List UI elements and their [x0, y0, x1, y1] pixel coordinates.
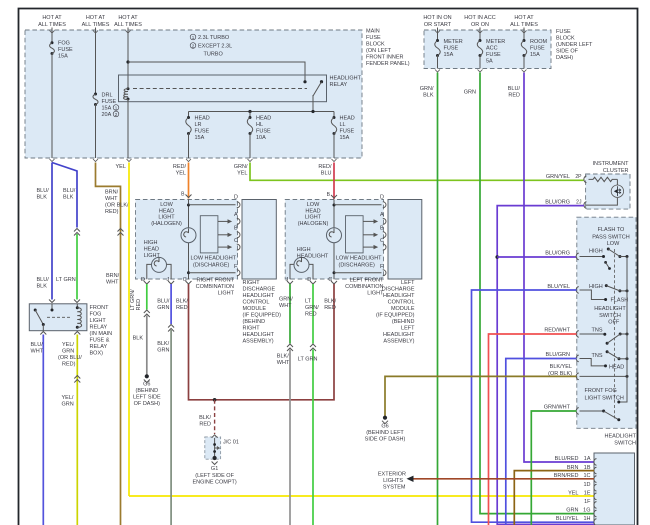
- svg-text:LT GRN: LT GRN: [56, 277, 76, 283]
- fog switch feed from bus: [617, 376, 627, 403]
- svg-text:BLK/: BLK/: [277, 354, 289, 360]
- svg-text:B: B: [380, 226, 384, 232]
- label BLU/GRN right: [157, 299, 170, 312]
- svg-text:BLK: BLK: [37, 284, 48, 290]
- cluster lamp wire down: [616, 179, 618, 185]
- node low beam top (left): [333, 204, 336, 207]
- switch pin TNS 2: [576, 355, 579, 362]
- svg-text:RELAY: RELAY: [90, 344, 108, 350]
- fuse HEAD LR label: [195, 116, 210, 142]
- switch pin HIGH 2: [576, 287, 579, 294]
- fuse ROOM 15A: [521, 39, 526, 57]
- svg-text:METER: METER: [444, 39, 463, 45]
- discharge unit rect (left): [346, 216, 364, 253]
- svg-text:BLK/YEL: BLK/YEL: [550, 364, 572, 370]
- svg-text:EXTERIOR: EXTERIOR: [378, 472, 406, 478]
- connector chevrons left pin D: [310, 344, 316, 351]
- svg-text:LOW: LOW: [160, 202, 173, 208]
- svg-text:LT: LT: [305, 299, 312, 305]
- svg-text:ACC: ACC: [486, 46, 498, 52]
- wire BLK/RED dashed drop to J/C 01: [214, 400, 216, 434]
- svg-text:(HALOGEN): (HALOGEN): [298, 221, 329, 227]
- fog relay coil pin chevron: [74, 300, 80, 303]
- svg-text:15A: 15A: [102, 106, 112, 112]
- front fog light relay label: [90, 305, 113, 357]
- instrument cluster (dashed box): [586, 174, 630, 209]
- wire BLK/GRN down: [170, 330, 172, 525]
- svg-text:GRN: GRN: [566, 508, 578, 514]
- svg-text:(IF EQUIPPED): (IF EQUIPPED): [376, 313, 415, 319]
- svg-text:CONTROL: CONTROL: [388, 300, 415, 306]
- label BLU/BLK upper pair: [37, 188, 76, 201]
- wire LT GRN/RED from left pin D: [312, 284, 314, 344]
- switch mechanical link (dashed): [614, 249, 616, 419]
- svg-text:D: D: [234, 195, 238, 201]
- svg-text:1G: 1G: [583, 508, 590, 514]
- right discharge headlight control module: [242, 200, 276, 280]
- dash fuse block (dashed box, top right): [424, 30, 551, 69]
- svg-text:BLU/: BLU/: [37, 188, 50, 194]
- headlight relay coil: [124, 80, 130, 101]
- ground G6 (behind dash, right light): [144, 374, 150, 382]
- fog relay switch: [34, 309, 45, 331]
- label flash to pass switch: [592, 227, 630, 247]
- svg-text:LIGHT SWITCH: LIGHT SWITCH: [585, 395, 624, 401]
- svg-text:HEADLIGHT: HEADLIGHT: [594, 306, 626, 312]
- fog relay mechanical link (dashed): [47, 316, 72, 318]
- svg-text:BLK/: BLK/: [324, 299, 336, 305]
- headlight switch stage 2 (high/flash): [580, 284, 629, 301]
- svg-text:FUSE: FUSE: [444, 46, 459, 52]
- bottom pin chevrons (right): [144, 281, 192, 284]
- fog relay coil: [76, 304, 82, 329]
- wire GRN/YEL from HL fuse: [250, 163, 584, 181]
- pin B left light: [327, 192, 337, 198]
- node bus-relay: [311, 110, 314, 113]
- wire BLU/GRN: [506, 359, 577, 525]
- wire YEL/GRN: [76, 335, 78, 525]
- svg-text:B: B: [234, 226, 238, 232]
- wire BLK to ground G6: [146, 316, 148, 376]
- label BLK/WHT: [277, 354, 290, 367]
- svg-text:RED/WHT: RED/WHT: [544, 328, 570, 334]
- fuse HEAD HL 10A: [247, 116, 252, 135]
- headlight relay label: [330, 76, 362, 89]
- svg-text:LOW HEADLIGHT: LOW HEADLIGHT: [336, 256, 382, 262]
- svg-text:HOT AT: HOT AT: [86, 15, 106, 21]
- bottom pin chevrons (left): [287, 281, 337, 284]
- label GRN/WHT left light: [279, 297, 293, 310]
- node bus-HL: [248, 110, 251, 113]
- fuse ROOM label: [530, 39, 548, 58]
- label BLK/RED drop: [199, 415, 211, 428]
- fog relay pin chevron left: [49, 300, 55, 303]
- svg-text:COMBINATION: COMBINATION: [345, 284, 383, 290]
- label low headlight discharge (right): [191, 256, 237, 269]
- label right discharge module: [243, 280, 282, 345]
- svg-text:BLOCK: BLOCK: [556, 36, 575, 42]
- svg-text:FUSE &: FUSE &: [90, 338, 110, 344]
- fuse FOG 15A: [50, 41, 55, 55]
- svg-text:RED/: RED/: [173, 164, 187, 170]
- svg-text:FUSE: FUSE: [340, 129, 355, 135]
- label GRN/BLK: [420, 86, 434, 99]
- label BLK/GRN: [157, 341, 169, 354]
- switch pin HIGH 1: [576, 253, 579, 260]
- node relay feed branch: [126, 60, 129, 63]
- label G6 right light: [133, 382, 161, 408]
- label right front combination light: [196, 278, 235, 297]
- wire RED/BLU to left combination light: [333, 163, 335, 200]
- wire GRN/BLK: [437, 73, 439, 525]
- svg-text:BLU/ORG: BLU/ORG: [545, 251, 570, 257]
- label exterior lights system: [378, 472, 406, 491]
- label headlight switch (below box): [605, 433, 637, 446]
- svg-text:BLU: BLU: [321, 171, 332, 177]
- svg-text:FRONT INNER: FRONT INNER: [366, 55, 404, 61]
- svg-text:HIGH: HIGH: [297, 247, 311, 253]
- svg-text:BLU/: BLU/: [508, 86, 521, 92]
- svg-text:BRN/: BRN/: [105, 190, 119, 196]
- svg-text:BRN/RED: BRN/RED: [554, 473, 579, 479]
- svg-text:BLU/RED: BLU/RED: [555, 456, 579, 462]
- high headlight bulb (left): [290, 257, 313, 279]
- wire BLK/RED right light pin C: [189, 284, 335, 400]
- connector chevrons right pin J: [168, 325, 174, 332]
- svg-text:HEAD: HEAD: [195, 116, 210, 122]
- wire BRN to connector 1B: [514, 471, 594, 525]
- wire feed headlight relay: [126, 28, 131, 89]
- low headlight halogen bulb (left): [327, 228, 342, 243]
- module pin brackets (left): [383, 202, 386, 276]
- svg-text:A: A: [380, 212, 384, 218]
- wire GRN/WHT: [531, 411, 576, 525]
- hot at all times label 2: [82, 15, 110, 28]
- label RED/BLU: [318, 164, 332, 177]
- connector chevrons right pin D: [144, 310, 150, 317]
- wire LL fuse exit: [332, 134, 337, 162]
- svg-text:FOG: FOG: [58, 41, 70, 47]
- svg-text:INSTRUMENT: INSTRUMENT: [592, 161, 629, 167]
- svg-text:(HALOGEN): (HALOGEN): [151, 221, 182, 227]
- junction connector J/C 01: [205, 435, 221, 459]
- svg-text:RED: RED: [508, 93, 520, 99]
- wire GRN to connector 1G: [480, 73, 594, 514]
- wire bus to LR fuse: [188, 112, 190, 117]
- svg-text:ASSEMBLY): ASSEMBLY): [243, 339, 274, 345]
- connector chevrons BRN/WHT: [118, 229, 124, 236]
- svg-text:2J: 2J: [576, 200, 582, 206]
- connector pin brackets: [594, 459, 597, 525]
- wire BRN/RED to connector 1C: [412, 478, 595, 480]
- fog relay switch feed stub: [51, 304, 54, 312]
- svg-text:FUSE: FUSE: [256, 129, 271, 135]
- svg-text:C: C: [380, 238, 384, 244]
- svg-text:LIGHT: LIGHT: [144, 253, 161, 259]
- svg-text:GRN/: GRN/: [234, 164, 248, 170]
- wire BLK/WHT down: [289, 350, 291, 525]
- svg-text:LIGHT: LIGHT: [90, 318, 107, 324]
- svg-text:BLK: BLK: [37, 195, 48, 201]
- svg-text:15A: 15A: [444, 52, 454, 58]
- svg-text:FOG: FOG: [90, 312, 102, 318]
- svg-text:BLU/YEL: BLU/YEL: [547, 284, 570, 290]
- svg-text:LR: LR: [195, 122, 202, 128]
- svg-text:MAIN: MAIN: [366, 29, 380, 35]
- wire meter acc fuse exit: [478, 56, 483, 73]
- headlight switch (dashed box): [577, 217, 636, 428]
- left discharge headlight control module: [388, 200, 422, 280]
- label 1H row: [556, 516, 591, 522]
- svg-text:OR START: OR START: [424, 22, 452, 28]
- pin B right light: [181, 192, 191, 198]
- svg-text:RIGHT FRONT: RIGHT FRONT: [197, 278, 235, 284]
- label 1C row: [554, 473, 591, 479]
- module pin letters (right): [234, 195, 238, 271]
- label LT GRN/RED vertical: [130, 289, 142, 311]
- svg-text:YEL/: YEL/: [62, 395, 74, 401]
- right front combination light (dashed box): [136, 200, 238, 280]
- label BLK/RED right: [176, 299, 188, 312]
- fuse METER ACC 5A: [477, 39, 482, 57]
- bottom pin letters (right): [141, 277, 187, 283]
- svg-text:EXCEPT 2.3L: EXCEPT 2.3L: [198, 44, 232, 50]
- svg-text:FLASH: FLASH: [611, 298, 629, 304]
- svg-text:LEFT: LEFT: [401, 280, 415, 286]
- connector chevrons left pin J: [287, 344, 293, 351]
- svg-text:HEADLIGHT: HEADLIGHT: [330, 76, 362, 82]
- switch pin TNS 1: [576, 331, 579, 338]
- bottom pin letters (left): [285, 277, 332, 283]
- wire relay coil to yellow exit: [127, 99, 132, 162]
- label BRN/WHT (OR BLK/RED): [105, 190, 129, 216]
- svg-text:BLU/ORG: BLU/ORG: [545, 200, 570, 206]
- svg-text:GRN/YEL: GRN/YEL: [546, 174, 570, 180]
- label left front combination light: [345, 278, 384, 297]
- svg-text:COMBINATION: COMBINATION: [196, 284, 234, 290]
- svg-text:(DISCHARGE): (DISCHARGE): [339, 262, 376, 268]
- svg-text:HEADLIGHT: HEADLIGHT: [243, 293, 275, 299]
- wire BLU/RED to connector 1A: [524, 73, 594, 463]
- wire RED/WHT: [489, 334, 577, 525]
- svg-text:SWITCH: SWITCH: [599, 313, 621, 319]
- headlight relay box: [119, 75, 327, 102]
- label left discharge module: [376, 280, 415, 345]
- hot in acc or on label: [464, 15, 495, 28]
- wire branch to relay contact: [128, 62, 305, 81]
- svg-text:RIGHT: RIGHT: [243, 280, 261, 286]
- label headlight switch / off: [594, 306, 626, 326]
- svg-text:FENDER PANEL): FENDER PANEL): [366, 61, 410, 67]
- svg-text:(ON LEFT: (ON LEFT: [366, 48, 392, 54]
- svg-text:WHT: WHT: [31, 349, 44, 355]
- switch pin GRN/WHT: [576, 408, 579, 415]
- svg-text:2P: 2P: [575, 174, 582, 180]
- svg-text:MODULE: MODULE: [391, 306, 415, 312]
- svg-text:RED: RED: [199, 422, 211, 428]
- svg-text:HIGH: HIGH: [144, 240, 158, 246]
- svg-text:BOX): BOX): [90, 351, 104, 357]
- svg-text:RED): RED): [62, 362, 76, 368]
- svg-text:FUSE: FUSE: [195, 129, 210, 135]
- svg-text:ALL TIMES: ALL TIMES: [38, 22, 66, 28]
- wire feed meter acc fuse: [478, 28, 483, 41]
- wire bus to HL fuse: [249, 112, 251, 117]
- svg-text:BLU/: BLU/: [37, 277, 50, 283]
- hot in on or start label: [423, 15, 451, 28]
- svg-text:TNS: TNS: [592, 353, 603, 359]
- svg-text:YEL: YEL: [176, 171, 186, 177]
- wire BLU/GRN from right pin J: [170, 284, 172, 324]
- wire BLK/YEL to ground G6: [385, 376, 577, 416]
- svg-text:GRN: GRN: [464, 90, 476, 96]
- svg-text:LOW: LOW: [307, 202, 320, 208]
- svg-text:LOW HEADLIGHT: LOW HEADLIGHT: [191, 256, 237, 262]
- svg-text:(BEHIND: (BEHIND: [243, 319, 266, 325]
- svg-text:(OR BLK/: (OR BLK/: [105, 203, 129, 209]
- svg-text:(OR BLU/: (OR BLU/: [58, 355, 82, 361]
- svg-text:(BEHIND LEFT: (BEHIND LEFT: [366, 430, 404, 436]
- headlight relay switch: [303, 80, 323, 111]
- svg-text:LEFT SIDE: LEFT SIDE: [133, 395, 161, 401]
- fuse DRL label: [102, 93, 119, 119]
- switch ground link: [580, 375, 629, 378]
- fuse METER label: [444, 39, 463, 58]
- label G6 switch: [365, 423, 406, 442]
- fuse METER 15A: [435, 39, 440, 57]
- svg-text:LIGHT: LIGHT: [158, 215, 175, 221]
- svg-text:HOT AT: HOT AT: [118, 15, 138, 21]
- svg-text:HEAD: HEAD: [609, 365, 624, 371]
- wire LT GRN down: [312, 350, 314, 525]
- label GRN/YEL: [234, 164, 248, 177]
- label BLU/BLK lower: [37, 277, 50, 290]
- svg-text:BRN/: BRN/: [106, 273, 120, 279]
- wire to module pin D (left): [334, 204, 382, 206]
- left front combination light (dashed box): [285, 200, 383, 280]
- svg-text:SWITCH: SWITCH: [614, 441, 636, 447]
- label G1: [192, 466, 236, 486]
- hot at all times label 1: [38, 15, 66, 28]
- svg-text:FRONT: FRONT: [90, 305, 110, 311]
- wire to module pin F (right): [189, 272, 236, 274]
- svg-text:RED): RED): [105, 209, 119, 215]
- svg-text:HEAD: HEAD: [305, 208, 320, 214]
- svg-text:ALL TIMES: ALL TIMES: [510, 22, 538, 28]
- front fog light relay box: [29, 304, 87, 331]
- svg-text:HOT AT: HOT AT: [514, 15, 534, 21]
- node BLU/ORG branch: [495, 255, 499, 259]
- wire YEL horizontal to connector 1E: [129, 495, 594, 497]
- module pin letters (left): [380, 195, 384, 271]
- main fuse block (dashed box): [25, 30, 362, 158]
- svg-text:BLU/GRN: BLU/GRN: [546, 352, 570, 358]
- wire LT GRN to fog relay coil: [76, 234, 78, 300]
- wire BLU/YEL: [472, 290, 595, 522]
- svg-text:GRN/: GRN/: [305, 305, 319, 311]
- cluster pin 2J: [576, 200, 586, 209]
- fuse HEAD LL 15A: [331, 116, 336, 135]
- svg-text:LIGHT: LIGHT: [305, 215, 322, 221]
- svg-text:HOT AT: HOT AT: [42, 15, 62, 21]
- svg-text:(DISCHARGE): (DISCHARGE): [193, 262, 230, 268]
- front fog light switch contact: [580, 410, 621, 422]
- wire BLU/BLK left branch: [51, 163, 53, 300]
- svg-text:1D: 1D: [583, 482, 590, 488]
- svg-text:HEADLIGHT: HEADLIGHT: [383, 332, 415, 338]
- svg-text:10A: 10A: [256, 135, 266, 141]
- svg-text:DISCHARGE: DISCHARGE: [382, 287, 415, 293]
- svg-text:OF DASH): OF DASH): [134, 401, 160, 407]
- svg-text:15A: 15A: [58, 54, 68, 60]
- label 1E row: [568, 490, 591, 496]
- svg-text:GRN: GRN: [62, 349, 74, 355]
- high head light bulb (right): [147, 257, 171, 279]
- wire to module pin F (left): [334, 272, 382, 274]
- svg-text:SIDE OF DASH): SIDE OF DASH): [365, 437, 406, 443]
- svg-text:FUSE: FUSE: [102, 99, 117, 105]
- cluster resistor: [589, 177, 618, 181]
- wire feed meter fuse: [435, 28, 440, 41]
- instrument cluster label: [592, 161, 629, 174]
- svg-text:A: A: [234, 212, 238, 218]
- exterior lights system arrow: [407, 476, 414, 482]
- low headlight halogen bulb (right): [181, 228, 196, 243]
- svg-text:LIGHT: LIGHT: [218, 291, 235, 297]
- svg-text:(OR BLK): (OR BLK): [548, 371, 572, 377]
- svg-text:(BEHIND: (BEHIND: [135, 388, 158, 394]
- fuse METER ACC label: [486, 39, 505, 65]
- svg-text:HL: HL: [256, 122, 263, 128]
- svg-text:TNS: TNS: [592, 327, 603, 333]
- svg-text:15A: 15A: [530, 52, 540, 58]
- svg-text:1F: 1F: [584, 499, 591, 505]
- svg-text:HEAD: HEAD: [256, 116, 271, 122]
- module pin brackets (right): [237, 202, 240, 276]
- svg-text:RED: RED: [305, 312, 317, 318]
- svg-text:15A: 15A: [195, 135, 205, 141]
- exterior lights connector box: [594, 453, 635, 525]
- label BRN/WHT lower: [106, 273, 120, 286]
- svg-text:GRN: GRN: [62, 402, 74, 408]
- label BLU/WHT: [31, 342, 44, 355]
- node low beam bottom (right): [187, 271, 190, 274]
- label high headlight (left): [297, 247, 329, 260]
- low beam feed wire (right): [188, 200, 190, 280]
- svg-text:(BEHIND: (BEHIND: [392, 319, 415, 325]
- svg-text:G6: G6: [143, 382, 150, 388]
- svg-text:5A: 5A: [486, 59, 493, 65]
- svg-text:METER: METER: [486, 39, 505, 45]
- svg-text:1B: 1B: [584, 465, 591, 471]
- switch common bus: [626, 257, 628, 377]
- label high head light (right): [144, 240, 161, 259]
- svg-text:ENGINE COMPT): ENGINE COMPT): [192, 480, 236, 486]
- svg-text:DRL: DRL: [102, 93, 113, 99]
- discharge arrows (right): [218, 220, 231, 249]
- svg-text:BLK: BLK: [133, 336, 144, 342]
- svg-text:1H: 1H: [583, 516, 590, 522]
- headlight switch stage 3 (tns/off): [580, 333, 629, 345]
- svg-text:G6: G6: [381, 423, 388, 429]
- svg-text:YEL: YEL: [568, 490, 578, 496]
- note 2.3L turbo: [190, 34, 232, 57]
- svg-text:FUSE: FUSE: [486, 52, 501, 58]
- svg-text:RED: RED: [136, 299, 142, 311]
- svg-text:SIDE OF: SIDE OF: [556, 49, 579, 55]
- label low head light halogen (left): [298, 202, 329, 227]
- svg-text:RED: RED: [176, 305, 188, 311]
